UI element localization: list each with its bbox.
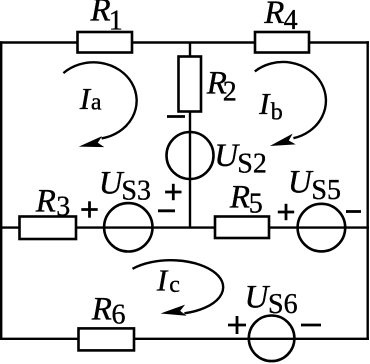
svg-text:I: I bbox=[258, 86, 271, 121]
U_S5 minus sign bbox=[346, 210, 361, 213]
svg-text:R: R bbox=[91, 291, 112, 327]
wire middle horizontal bbox=[0, 226, 369, 228]
svg-text:R: R bbox=[263, 0, 284, 31]
U_S6 plus sign bbox=[228, 316, 246, 334]
resistor R5 bbox=[215, 217, 269, 239]
svg-text:2: 2 bbox=[223, 77, 237, 108]
voltage source U_S6 bbox=[249, 316, 295, 362]
svg-text:S5: S5 bbox=[311, 175, 341, 206]
svg-text:3: 3 bbox=[56, 192, 70, 223]
svg-text:R: R bbox=[90, 0, 111, 29]
U_S2 plus sign bbox=[165, 184, 181, 200]
svg-text:R: R bbox=[35, 184, 56, 220]
svg-text:I: I bbox=[156, 262, 169, 297]
voltage source U_S5 bbox=[298, 204, 346, 252]
resistor R6 bbox=[79, 328, 135, 350]
resistor R3 bbox=[20, 217, 77, 240]
resistor R2 bbox=[179, 57, 202, 112]
resistor R1 bbox=[78, 32, 133, 53]
mesh current loop I_a bbox=[63, 62, 136, 147]
svg-text:c: c bbox=[169, 272, 180, 298]
svg-text:U: U bbox=[288, 165, 314, 201]
U_S2 minus sign bbox=[167, 115, 185, 118]
wire bottom bbox=[0, 338, 369, 340]
svg-text:R: R bbox=[229, 180, 250, 216]
voltage source U_S2 bbox=[167, 132, 214, 179]
svg-text:a: a bbox=[91, 89, 102, 115]
mesh current loop I_c bbox=[133, 260, 224, 316]
wire right bbox=[367, 41, 369, 340]
svg-text:U: U bbox=[245, 279, 271, 315]
svg-text:4: 4 bbox=[284, 5, 298, 36]
U_S6 minus sign bbox=[301, 324, 321, 327]
svg-text:S3: S3 bbox=[121, 175, 151, 206]
wire center vertical branch bbox=[189, 43, 191, 228]
svg-text:S2: S2 bbox=[237, 149, 267, 180]
mesh current loop I_b bbox=[255, 62, 326, 146]
svg-text:I: I bbox=[79, 81, 92, 116]
wire top bbox=[0, 41, 369, 43]
voltage source U_S3 bbox=[104, 203, 152, 251]
resistor R4 bbox=[255, 32, 309, 53]
U_S3 minus sign bbox=[158, 209, 175, 212]
svg-text:5: 5 bbox=[249, 188, 263, 219]
wire left bbox=[0, 41, 2, 340]
svg-text:6: 6 bbox=[112, 300, 126, 331]
svg-text:b: b bbox=[271, 100, 283, 126]
U_S3 plus sign bbox=[81, 201, 97, 217]
svg-text:1: 1 bbox=[109, 6, 123, 37]
U_S5 plus sign bbox=[278, 204, 294, 220]
svg-text:S6: S6 bbox=[268, 289, 298, 320]
